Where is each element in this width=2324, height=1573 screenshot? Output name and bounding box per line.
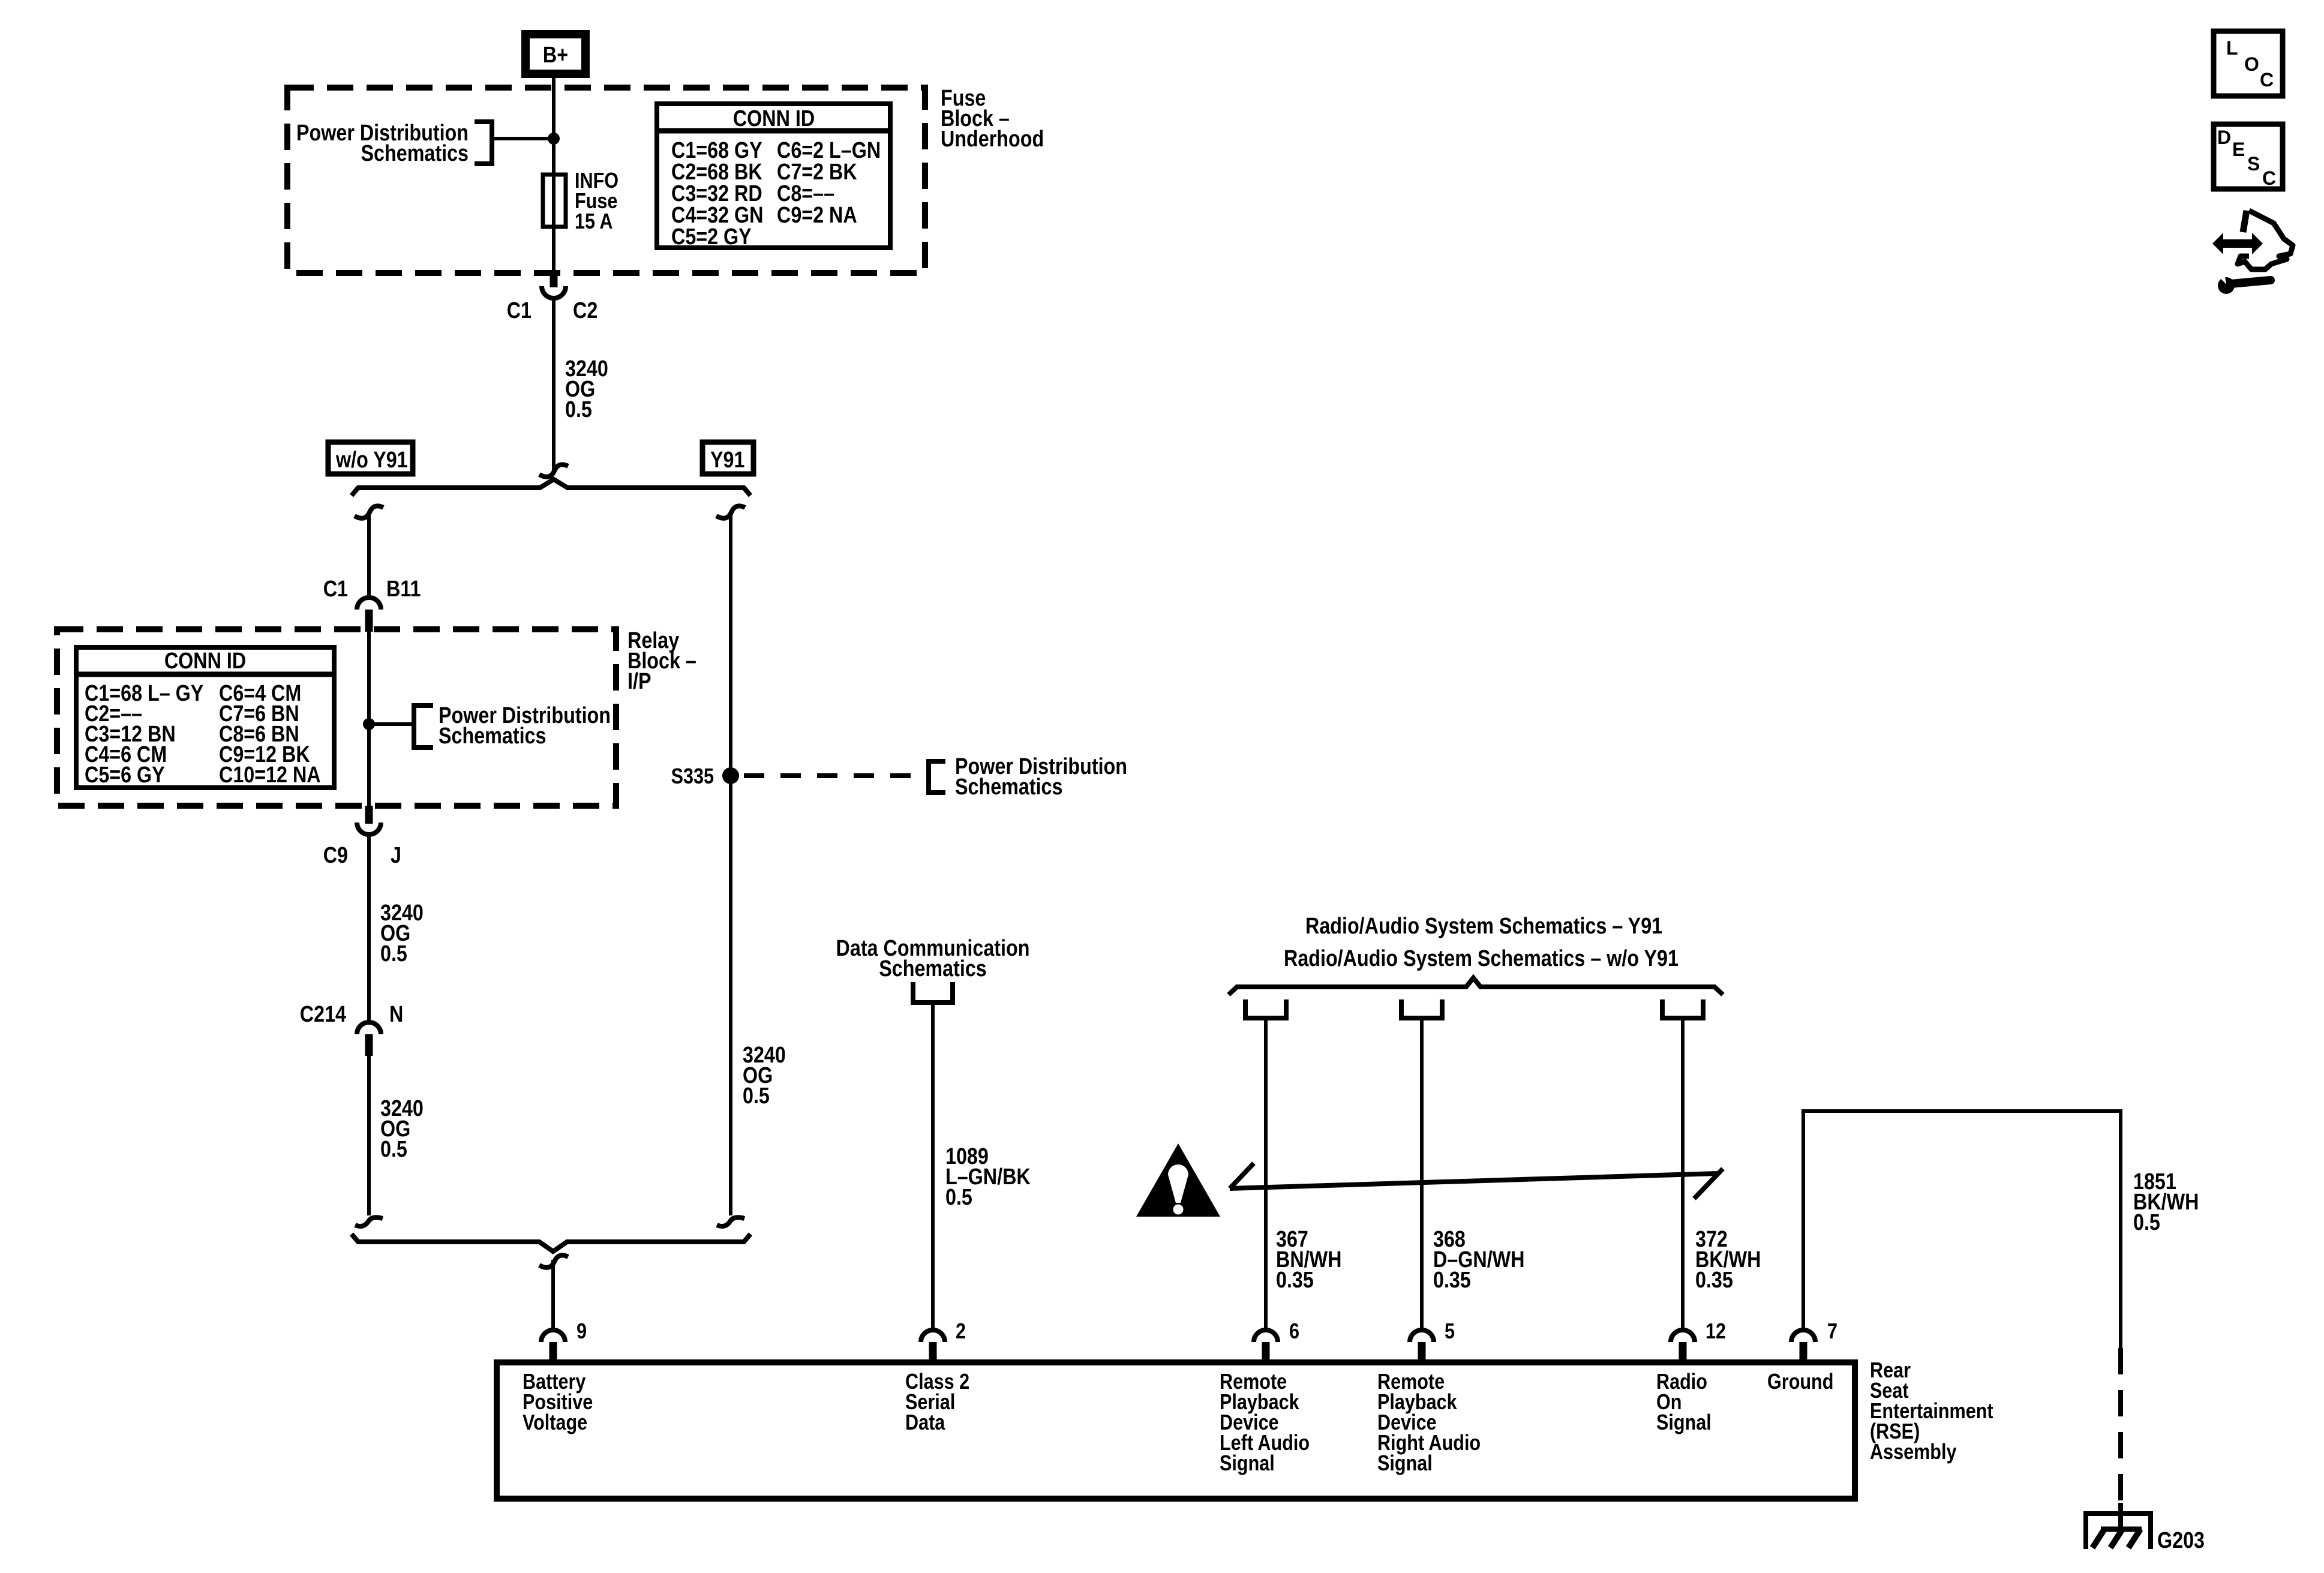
reference Power Distribution Schematics (fuse block) xyxy=(296,121,492,166)
svg-text:C1=68 GYC2=68 BKC3=32 RDC4=32: C1=68 GYC2=68 BKC3=32 RDC4=32 GNC5=2 GY xyxy=(671,138,763,250)
connector C1/B11 (relay block input) xyxy=(357,598,381,632)
svg-text:C214: C214 xyxy=(300,1002,347,1027)
option box Y91 xyxy=(702,442,753,474)
svg-text:C: C xyxy=(2260,69,2274,91)
wire fuse to C1/C2 xyxy=(552,227,556,273)
wire right branch Y91 xyxy=(729,515,732,1215)
wire merge resume curl xyxy=(539,1255,568,1268)
svg-text:Radio/Audio System Schematics: Radio/Audio System Schematics – Y91 xyxy=(1305,914,1662,939)
merge brace xyxy=(352,1234,750,1251)
wire 368 D-GN/WH 0.35 xyxy=(1420,1020,1424,1331)
wire 1089 L-GN/BK 0.5 xyxy=(931,1005,935,1331)
annotation arrow through option wires xyxy=(1230,1163,1723,1199)
svg-text:B11: B11 xyxy=(386,577,421,602)
svg-text:S335: S335 xyxy=(671,765,714,789)
wire B+ to fuse xyxy=(552,78,556,175)
icon DESC box xyxy=(2214,124,2283,189)
svg-text:12: 12 xyxy=(1706,1320,1726,1344)
radio/audio spread brace xyxy=(1229,978,1723,995)
svg-text:J: J xyxy=(391,843,401,868)
wire right branch start curl xyxy=(716,506,745,518)
ground symbol G203 xyxy=(2086,1514,2151,1549)
pin 2 connector xyxy=(921,1330,945,1359)
RSE assembly box xyxy=(497,1362,1855,1499)
reference Power Distribution Schematics (relay block) xyxy=(414,703,611,749)
connector C1/C2 (fuse block output) xyxy=(542,270,566,298)
pin 5 connector xyxy=(1410,1330,1434,1359)
wire 372 BK/WH 0.35 xyxy=(1681,1020,1685,1331)
svg-text:6: 6 xyxy=(1289,1320,1299,1344)
wire break curl above split brace xyxy=(539,464,568,477)
bracket for wire 367 xyxy=(1245,999,1286,1018)
wire left branch start curl xyxy=(355,506,383,518)
svg-text:C1: C1 xyxy=(323,577,348,602)
svg-text:Radio/Audio System Schematics: Radio/Audio System Schematics – w/o Y91 xyxy=(1284,946,1679,971)
bracket for wire 372 xyxy=(1662,999,1703,1018)
node S335 xyxy=(722,767,739,784)
connector C9/J (relay block output) xyxy=(357,806,381,834)
node junction on relay block wire xyxy=(363,718,375,730)
svg-text:C2: C2 xyxy=(573,298,597,323)
fuse block underhood dashed box xyxy=(287,88,925,273)
svg-text:CONN ID: CONN ID xyxy=(733,106,815,131)
wire left branch upper segment xyxy=(367,515,371,598)
svg-text:BatteryPositiveVoltage: BatteryPositiveVoltage xyxy=(523,1370,593,1435)
pin 7 connector xyxy=(1791,1330,1815,1359)
reference Power Distribution Schematics (S335) xyxy=(929,754,1127,800)
pin 12 connector xyxy=(1671,1330,1695,1359)
wire spur to tap junction xyxy=(492,137,554,140)
power symbol B+ xyxy=(526,34,585,74)
relay block I/P dashed box xyxy=(57,629,616,806)
wire 1851 BK/WH 0.5 (pin 7 to G203) xyxy=(1803,1111,2121,1529)
svg-text:C1: C1 xyxy=(507,298,532,323)
svg-text:B+: B+ xyxy=(543,43,568,68)
svg-text:5: 5 xyxy=(1445,1320,1455,1344)
split brace xyxy=(352,479,750,496)
bracket for wire 368 xyxy=(1401,999,1442,1018)
wire 3240 OG 0.5 (J to C214) xyxy=(367,834,371,1022)
wire 3240 OG 0.5 (N to merge) xyxy=(367,1056,371,1215)
svg-text:L: L xyxy=(2226,37,2238,59)
svg-text:INFOFuse15 A: INFOFuse15 A xyxy=(575,169,618,234)
svg-text:N: N xyxy=(389,1002,403,1027)
svg-text:S: S xyxy=(2247,153,2260,175)
svg-text:Ground: Ground xyxy=(1767,1370,1833,1394)
wire left branch end curl xyxy=(355,1217,383,1226)
svg-text:C9: C9 xyxy=(323,843,348,868)
connector C214/N xyxy=(357,1022,381,1056)
svg-text:2: 2 xyxy=(956,1320,966,1344)
CONN ID table (relay block) xyxy=(76,647,334,788)
svg-text:CONN ID: CONN ID xyxy=(164,649,246,674)
icon adjust hand with arrow and wrench xyxy=(2212,211,2293,294)
svg-text:7: 7 xyxy=(1827,1320,1837,1344)
icon LOC box xyxy=(2214,31,2283,96)
dashed reference wire from S335 xyxy=(744,773,929,778)
pin 9 connector xyxy=(541,1330,565,1359)
svg-text:D: D xyxy=(2217,127,2231,148)
wire inside relay block xyxy=(367,630,371,807)
pin 6 connector xyxy=(1254,1330,1278,1359)
svg-text:E: E xyxy=(2232,139,2245,160)
wire merge to pin 9 xyxy=(551,1260,555,1331)
node junction at fuse block tap xyxy=(548,133,560,145)
svg-text:Y91: Y91 xyxy=(710,448,744,473)
option box w/o Y91 xyxy=(328,442,413,474)
svg-text:C: C xyxy=(2262,167,2276,189)
wire spur to reference bracket (relay block) xyxy=(369,722,414,726)
CONN ID table (fuse block) xyxy=(657,104,890,250)
reference Data Communication Schematics xyxy=(836,936,1030,1002)
wire 367 BN/WH 0.35 xyxy=(1264,1020,1268,1331)
wire right branch end curl xyxy=(717,1217,744,1226)
svg-text:9: 9 xyxy=(577,1320,587,1344)
svg-text:O: O xyxy=(2244,53,2259,75)
svg-text:G203: G203 xyxy=(2157,1528,2205,1553)
warning triangle xyxy=(1136,1143,1220,1217)
fuse INFO 15 A xyxy=(543,175,566,227)
wire 3240 OG 0.5 (C2 to split) xyxy=(552,298,556,472)
svg-text:w/o Y91: w/o Y91 xyxy=(335,448,408,473)
